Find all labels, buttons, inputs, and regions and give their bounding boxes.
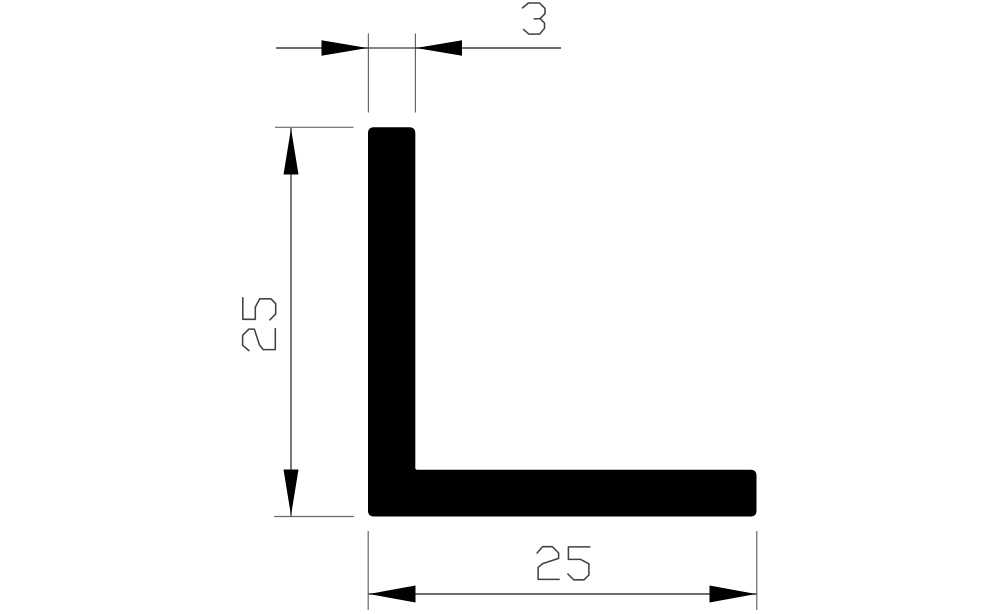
L-angle profile 25x25x3 solid section [368, 127, 757, 516]
bottom dimension (25): extension line right [756, 531, 758, 610]
top dimension (3): value text "3" stroke font [523, 3, 546, 34]
left dimension (25): extension line top [275, 126, 354, 128]
top dimension (3): dimension line left segment [276, 47, 368, 49]
top dimension (3): right arrowhead pointing left [416, 40, 462, 56]
left dimension (25): bottom arrowhead pointing down [284, 470, 299, 516]
bottom dimension (25): horizontal dimension line [369, 593, 757, 595]
left dimension (25): value text "25" rotated 90deg CCW [243, 298, 276, 351]
top dimension (3): dimension line right segment / leader [415, 47, 561, 49]
top dimension (3): line between extension lines [368, 47, 416, 49]
bottom dimension (25): value text "25" stroke font [537, 547, 590, 580]
top dimension (3): left arrowhead pointing right [322, 40, 368, 56]
bottom dimension (25): left arrowhead pointing left [369, 586, 416, 603]
bottom dimension (25): extension line left [367, 531, 369, 610]
top dimension (3): extension line left [367, 34, 369, 113]
left dimension (25): extension line bottom [274, 516, 354, 518]
top dimension (3): extension line right [414, 34, 416, 113]
left dimension (25): top arrowhead pointing up [284, 129, 299, 175]
left dimension (25): vertical dimension line [290, 128, 292, 516]
bottom dimension (25): right arrowhead pointing right [710, 586, 757, 603]
